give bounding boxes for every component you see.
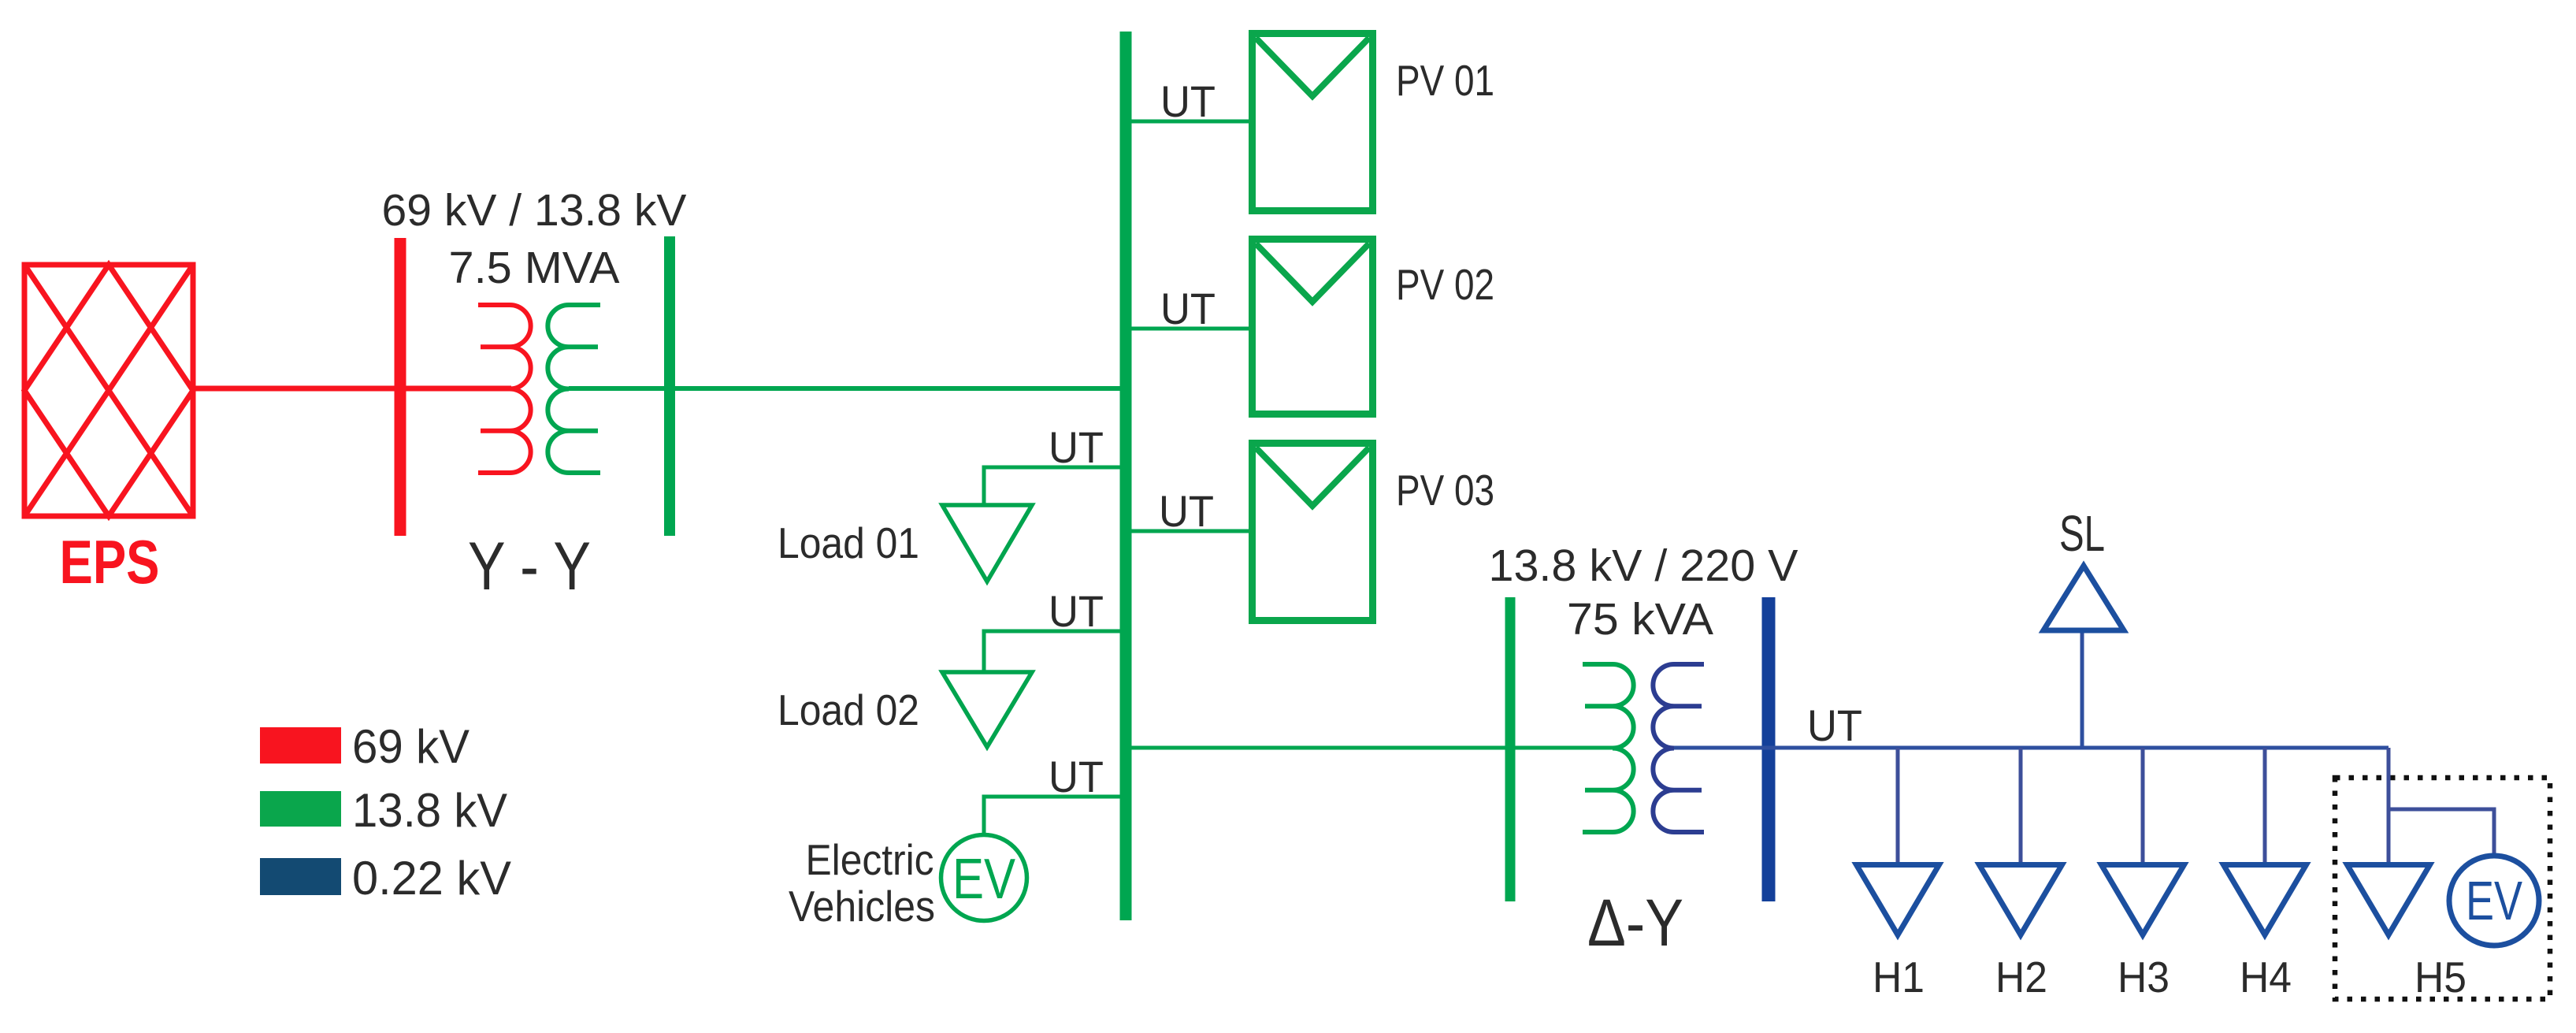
- wire main feeder to T2: [1130, 746, 1613, 750]
- PV array PV03: [1253, 444, 1373, 621]
- wire tap to EV charger: [984, 797, 1122, 834]
- riser to H1: [1896, 748, 1900, 864]
- svg-text:Load 01: Load 01: [778, 518, 919, 567]
- svg-text:13.8 kV: 13.8 kV: [352, 784, 507, 837]
- transformer T2 secondary coil (navy): [1653, 664, 1704, 832]
- wire tap to Load 02: [984, 631, 1122, 672]
- svg-text:H2: H2: [1995, 953, 2047, 1001]
- svg-text:Load 02: Load 02: [778, 686, 919, 734]
- svg-text:SL: SL: [2059, 505, 2105, 562]
- svg-text:69 kV: 69 kV: [352, 720, 470, 773]
- bus B2 13.8 kV (green): [664, 236, 675, 536]
- main feeder bus (green): [1120, 32, 1132, 920]
- svg-text:PV 02: PV 02: [1396, 260, 1494, 309]
- svg-text:H3: H3: [2118, 953, 2170, 1001]
- bus B4 0.22 kV (navy): [1762, 597, 1776, 901]
- wire tap to PV02: [1130, 327, 1250, 331]
- EPS source block: [24, 265, 193, 516]
- wire EPS to 69kV bus: [193, 386, 511, 392]
- EV charger circle (navy): [2449, 856, 2539, 946]
- svg-text:UT: UT: [1159, 486, 1214, 536]
- transformer T1 secondary coil (green): [547, 305, 600, 473]
- svg-text:75 kVA: 75 kVA: [1567, 594, 1713, 645]
- dotted boundary box H5: [2335, 778, 2550, 999]
- EV charger circle (green): [941, 835, 1027, 921]
- riser to H2: [2019, 748, 2023, 864]
- svg-text:H4: H4: [2240, 953, 2292, 1001]
- wire T1 to main feeder bus: [569, 386, 1126, 391]
- legend swatch 13.8 kV (green): [260, 791, 341, 827]
- PV array PV02: [1253, 240, 1373, 414]
- svg-text:H5: H5: [2415, 953, 2467, 1001]
- load arrow Load 02: [942, 672, 1032, 747]
- legend swatch 69 kV (red): [260, 727, 341, 764]
- riser to H5: [2387, 748, 2391, 864]
- bus B3 13.8 kV (green): [1505, 597, 1516, 901]
- svg-text:7.5 MVA: 7.5 MVA: [449, 243, 620, 293]
- wire tap to PV01: [1130, 120, 1250, 124]
- svg-text:UT: UT: [1049, 422, 1104, 472]
- svg-text:Y - Y: Y - Y: [468, 529, 591, 604]
- svg-text:EPS: EPS: [60, 527, 160, 596]
- svg-text:UT: UT: [1160, 284, 1216, 333]
- svg-text:0.22 kV: 0.22 kV: [352, 852, 511, 905]
- svg-text:UT: UT: [1807, 700, 1862, 750]
- svg-text:EV: EV: [952, 848, 1015, 911]
- wire tap to Load 01: [984, 467, 1122, 505]
- wire stem to SL: [2080, 633, 2084, 748]
- svg-text:H1: H1: [1873, 953, 1925, 1001]
- load arrow Load 01: [942, 505, 1032, 582]
- riser to H3: [2141, 748, 2145, 864]
- bus B1 69 kV (red): [395, 238, 406, 536]
- house load H3: [2102, 865, 2184, 935]
- svg-text:PV 03: PV 03: [1396, 466, 1494, 515]
- svg-text:UT: UT: [1049, 586, 1104, 636]
- svg-text:Vehicles: Vehicles: [789, 882, 935, 931]
- legend swatch 0.22 kV (navy): [260, 858, 341, 895]
- svg-text:Electric: Electric: [806, 835, 934, 884]
- transformer T2 primary coil (green): [1583, 664, 1634, 832]
- svg-text:UT: UT: [1049, 752, 1104, 801]
- house load H2: [1980, 865, 2062, 935]
- svg-text:Δ-Y: Δ-Y: [1587, 886, 1683, 960]
- svg-text:EV: EV: [2466, 870, 2522, 931]
- transformer T1 primary coil (red): [478, 305, 531, 473]
- riser to H4: [2263, 748, 2267, 864]
- house load H5: [2348, 865, 2430, 935]
- LV feeder wire (navy): [1674, 746, 2389, 750]
- wire jog to EV charger (navy): [2389, 809, 2494, 858]
- house load H1: [1857, 865, 1939, 935]
- wire tap to PV03: [1130, 530, 1250, 533]
- svg-text:PV 01: PV 01: [1396, 56, 1494, 105]
- svg-text:13.8 kV / 220 V: 13.8 kV / 220 V: [1489, 541, 1798, 591]
- PV array PV01: [1253, 34, 1373, 211]
- house load H4: [2224, 865, 2307, 935]
- svg-text:69 kV / 13.8 kV: 69 kV / 13.8 kV: [382, 185, 687, 236]
- street lighting SL triangle: [2043, 566, 2124, 630]
- svg-text:UT: UT: [1160, 76, 1216, 126]
